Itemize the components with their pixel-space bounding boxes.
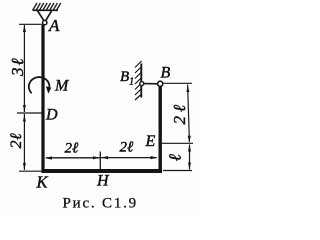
- wall support B1: hatching: [135, 61, 142, 100]
- left dimension line 3l (A to D): [23, 25, 25, 112]
- svg-text:E: E: [145, 133, 156, 150]
- arrowhead right at E column: [151, 156, 158, 159]
- svg-text:2ℓ: 2ℓ: [170, 101, 189, 125]
- vertical bar A-K: [41, 25, 44, 172]
- svg-text:M: M: [54, 78, 70, 95]
- bottom bar K-H-E column: [42, 169, 163, 173]
- fixed pin support at A: triangle: [38, 11, 52, 21]
- left dimension: tick at A level: [19, 23, 42, 25]
- tick at D on bar: [17, 112, 42, 114]
- arrowhead down at D: [23, 105, 26, 112]
- svg-text:H: H: [96, 173, 110, 190]
- tick at E level: [162, 142, 193, 144]
- svg-text:2ℓ: 2ℓ: [65, 141, 79, 157]
- wall support B1: wall line: [140, 64, 142, 98]
- svg-text:B: B: [161, 65, 171, 82]
- arrowhead left at K bar: [45, 156, 53, 159]
- svg-text:Рис. С1.9: Рис. С1.9: [63, 196, 138, 212]
- arrowhead up below D: [23, 115, 26, 122]
- arrowhead down at E: [188, 136, 191, 143]
- svg-text:ℓ: ℓ: [165, 154, 184, 161]
- svg-text:2ℓ: 2ℓ: [120, 140, 134, 156]
- tick at bottom right: [163, 170, 192, 172]
- moment M arc: [29, 77, 50, 93]
- pin circle at A: [43, 20, 47, 24]
- tick at H: [99, 152, 101, 170]
- fixed pin support at A: hatching: [33, 3, 61, 11]
- right dimension line l (E to bottom): [189, 145, 191, 170]
- arrowhead down at bottom: [188, 163, 191, 170]
- link rod B1-B: [144, 83, 159, 85]
- arrowhead up below E: [188, 145, 191, 152]
- bottom dimension line 2l (K to H): [46, 157, 100, 159]
- arrowhead up at B: [186, 85, 189, 92]
- right dimension line 2l (B to E): [188, 85, 190, 143]
- arrowhead up at A: [23, 25, 26, 32]
- svg-text:A: A: [48, 16, 60, 35]
- left dimension line 2l (D to K): [23, 114, 25, 170]
- moment M arrowhead: [46, 86, 51, 93]
- bottom dimension line 2l (H to E column): [101, 157, 157, 159]
- pin circle at wall B1: [140, 82, 144, 86]
- right bar B-E: [158, 86, 161, 171]
- svg-text:K: K: [36, 173, 49, 192]
- fixed pin support at A: ceiling line: [33, 9, 58, 11]
- pin circle at B: [158, 81, 163, 86]
- svg-text:3ℓ: 3ℓ: [8, 56, 27, 77]
- svg-text:D: D: [45, 107, 58, 124]
- arrowhead right at H tick: [93, 156, 100, 159]
- right dimension: tick at B level: [164, 82, 193, 84]
- arrowhead down at K: [23, 163, 26, 170]
- tick at K level: [19, 170, 42, 172]
- arrowhead left at H tick: [101, 156, 108, 159]
- svg-text:2ℓ: 2ℓ: [8, 133, 25, 149]
